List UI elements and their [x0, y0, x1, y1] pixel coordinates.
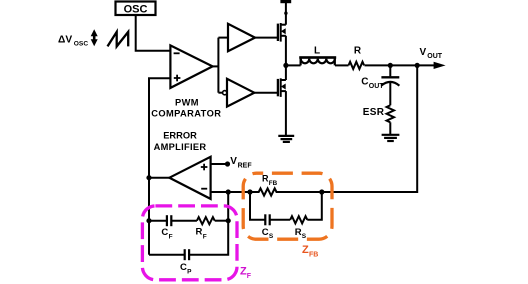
svg-text:Z: Z: [302, 244, 309, 256]
wire VIN to Q1 drain: [285, 3, 287, 25]
svg-text:C: C: [361, 77, 368, 88]
wire SW to inductor: [286, 64, 301, 66]
svg-text:S: S: [302, 233, 307, 240]
wire ZFB lower branch left: [250, 192, 265, 220]
svg-text:S: S: [269, 233, 274, 240]
svg-text:R: R: [354, 46, 362, 57]
capacitor CF: [167, 215, 171, 226]
node ZFB left junction: [247, 189, 252, 194]
wire FB junction down to ZF top branch: [227, 192, 229, 221]
svg-text:REF: REF: [238, 162, 253, 169]
box ZF dashed: [142, 206, 237, 280]
wire Q2 source to ground: [285, 91, 287, 135]
ground output: [382, 135, 400, 141]
node FB junction: [226, 189, 231, 194]
label ZF: [240, 266, 252, 280]
svg-text:P: P: [187, 269, 192, 276]
svg-text:ESR: ESR: [363, 107, 385, 118]
svg-text:C: C: [180, 262, 187, 273]
svg-text:R: R: [295, 227, 302, 238]
label CP: [180, 262, 192, 275]
wire lower driver output to Q2 gate: [254, 92, 277, 94]
op-amp U1 PWM comparator: [170, 45, 212, 88]
ground power stage: [278, 136, 294, 142]
wire CF to RF: [171, 220, 197, 222]
wire OSC output to PWM comparator inverting input: [136, 15, 171, 51]
error amplifier U2: [169, 157, 210, 199]
node COUT junction: [388, 63, 393, 68]
svg-text:OSC: OSC: [74, 40, 89, 47]
capacitor COUT: [381, 65, 399, 105]
ramp amplitude double arrow: [91, 29, 98, 46]
node ZF top left junction: [146, 218, 151, 223]
label VREF: [230, 156, 252, 169]
wire noninverting input to VREF: [211, 163, 228, 165]
resistor RF: [197, 217, 215, 224]
label RFB: [262, 173, 278, 187]
node error amp output junction: [146, 175, 151, 180]
svg-text:ΔV: ΔV: [58, 34, 72, 45]
label RF: [196, 227, 207, 241]
svg-text:FB: FB: [269, 180, 278, 187]
wire SW to Q2 drain: [285, 65, 287, 80]
svg-text:ERROR: ERROR: [163, 131, 197, 141]
wire ESR to ground: [389, 122, 391, 134]
svg-text:F: F: [169, 234, 173, 241]
svg-text:F: F: [203, 233, 207, 240]
svg-text:PWM: PWM: [175, 97, 199, 107]
svg-text:C: C: [161, 227, 168, 238]
resistor RFB: [250, 188, 322, 195]
label COUT: [361, 77, 384, 91]
svg-text:AMPLIFIER: AMPLIFIER: [154, 142, 207, 152]
arrow VOUT: [434, 62, 446, 69]
svg-text:R: R: [196, 227, 203, 238]
node VOUT feedback junction: [415, 63, 420, 68]
power rail VIN bar: [280, 0, 291, 3]
node VREF terminal: [225, 161, 230, 166]
label deltaV_OSC: [58, 34, 88, 47]
wire VOUT feedback to ZFB: [322, 65, 417, 192]
wire PWM comparator noninverting input from error amplifier output: [149, 78, 170, 177]
transistor Q1 high-side MOSFET: [278, 23, 286, 42]
svg-text:OSC: OSC: [124, 3, 148, 15]
wire Q1 source to switch node: [285, 36, 287, 66]
label ERROR AMPLIFIER: [154, 131, 207, 153]
node ZF top right junction: [226, 218, 231, 223]
wire R to VOUT arrow: [365, 64, 435, 66]
transistor Q2 low-side MOSFET: [278, 78, 286, 97]
capacitor CS: [265, 214, 269, 225]
svg-text:COMPARATOR: COMPARATOR: [151, 108, 221, 118]
wire ZF lower branch left: [149, 254, 185, 256]
wire error amp output down to ZF: [148, 178, 150, 255]
label VOUT: [420, 47, 443, 60]
svg-text:OUT: OUT: [427, 53, 443, 60]
svg-text:FB: FB: [309, 252, 318, 259]
wire upper driver output to Q1 gate: [255, 37, 277, 39]
wire RF to ZF top right: [215, 220, 229, 222]
oscillator OSC: [116, 2, 156, 16]
wire inductor to R: [335, 64, 349, 66]
svg-text:F: F: [247, 273, 252, 280]
svg-text:L: L: [314, 46, 320, 57]
box ZFB dashed: [243, 173, 332, 239]
svg-text:C: C: [262, 227, 269, 238]
inductor L: [299, 58, 336, 66]
sawtooth waveform: [108, 32, 129, 47]
svg-text:OUT: OUT: [369, 83, 385, 90]
label CF: [161, 227, 172, 241]
svg-text:V: V: [420, 47, 427, 58]
wire CP to ZF right vertical: [189, 221, 228, 255]
wire to lower driver input: [218, 92, 222, 94]
resistor R: [349, 62, 365, 69]
wire ZF top branch left: [149, 220, 167, 222]
resistor RS: [290, 216, 307, 223]
junction on drain wire: [284, 12, 287, 15]
wire driver split vertical: [217, 38, 219, 93]
node ZFB right junction: [319, 189, 324, 194]
wire RS to ZFB right: [307, 192, 322, 220]
inverter lower gate driver: [223, 79, 255, 107]
label ZFB: [302, 244, 318, 259]
label RS: [295, 227, 307, 240]
label CS: [262, 227, 274, 240]
wire to upper driver input: [218, 37, 228, 39]
wire CS to RS: [270, 219, 291, 221]
wire error amp output: [149, 177, 169, 179]
wire comparator output to driver split: [213, 65, 219, 67]
label PWM COMPARATOR: [151, 97, 221, 118]
resistor ESR: [387, 105, 394, 122]
buffer upper gate driver: [228, 24, 255, 51]
node SW switch node: [283, 63, 288, 68]
capacitor CP: [185, 249, 189, 260]
wire inverting input bus: [211, 191, 250, 193]
svg-text:V: V: [230, 156, 237, 167]
